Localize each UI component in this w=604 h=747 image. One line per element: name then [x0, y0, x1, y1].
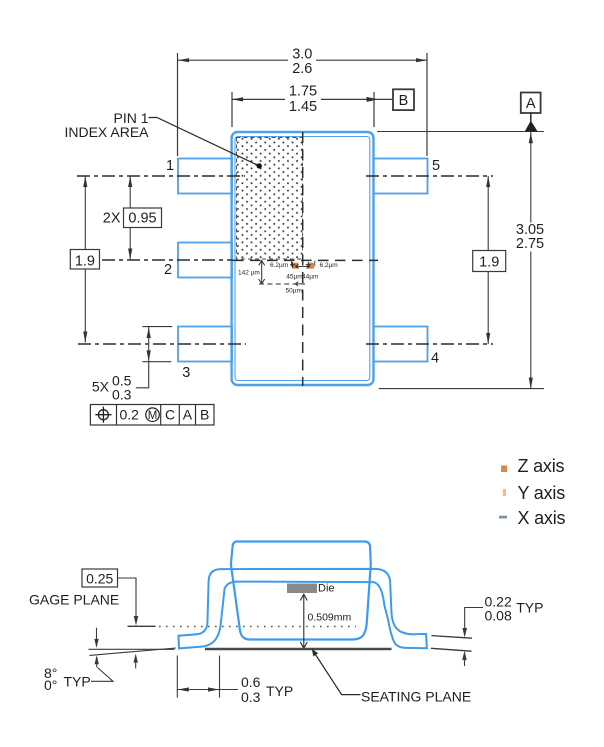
dimension 3.0/2.6 line — [178, 59, 288, 61]
mold body outline — [231, 542, 371, 640]
left 1.9 box — [70, 250, 99, 270]
pin 1 centerline — [77, 175, 245, 177]
svg-text:C: C — [165, 407, 175, 423]
dimension 2X 0.95 line — [129, 176, 131, 260]
die rectangle — [287, 584, 317, 594]
pin 3 — [178, 327, 232, 362]
position symbol — [95, 407, 111, 423]
right 1.9 box — [473, 251, 506, 272]
svg-text:2: 2 — [164, 262, 172, 278]
dimension 3.05/2.75 bottom extension line — [379, 388, 544, 390]
dimension 3.0/2.6 extension line left — [177, 53, 179, 156]
svg-text:1.75: 1.75 — [289, 84, 317, 100]
dimension 3.0/2.6 extension line right — [426, 53, 428, 156]
svg-text:1.9: 1.9 — [479, 254, 499, 270]
right dimension 1.9 line — [487, 176, 489, 344]
svg-text:B: B — [399, 93, 409, 109]
gage plane dotted line — [159, 626, 356, 628]
svg-text:0.25: 0.25 — [86, 570, 113, 586]
svg-text:0.08: 0.08 — [485, 607, 512, 623]
dimension 3.05/2.75 top extension line — [377, 131, 544, 133]
svg-text:142 µm: 142 µm — [238, 270, 260, 277]
svg-text:B: B — [200, 407, 209, 423]
svg-text:A: A — [183, 407, 193, 423]
142um vertical arrow — [261, 260, 263, 284]
seating plane leader — [314, 652, 361, 695]
0.22/0.08 arrows — [465, 608, 483, 629]
svg-text:45µm: 45µm — [286, 273, 302, 280]
svg-text:1.45: 1.45 — [289, 99, 317, 115]
0.509mm dimension — [303, 594, 305, 649]
X axis marker — [499, 516, 507, 519]
pin 4 centerline — [366, 343, 493, 345]
svg-text:6.2µm: 6.2µm — [270, 262, 288, 269]
pin 2 centerline — [77, 259, 233, 261]
pin 2 — [178, 243, 232, 278]
pin 5 centerline — [366, 175, 493, 177]
dimension 1.75/1.45 line — [232, 98, 285, 100]
svg-text:TYP: TYP — [64, 674, 91, 690]
die mark square left — [292, 263, 298, 269]
seating plane line — [205, 648, 392, 650]
svg-text:0.3: 0.3 — [241, 689, 261, 705]
svg-text:1: 1 — [166, 158, 174, 174]
package body inner outline — [235, 137, 370, 381]
svg-text:50µm: 50µm — [286, 287, 302, 294]
gage plane short line — [128, 625, 156, 627]
die mark square right — [308, 263, 314, 269]
pin 1 — [178, 159, 232, 194]
left dimension 1.9 line — [84, 176, 86, 343]
svg-text:0.95: 0.95 — [128, 211, 156, 227]
0.6/0.3 extension lines — [176, 656, 178, 698]
lead angle slant line — [89, 648, 176, 655]
svg-text:Y axis: Y axis — [518, 483, 566, 503]
142um dashed reference line — [259, 283, 305, 285]
pin 3 centerline — [78, 343, 246, 345]
svg-text:0°: 0° — [44, 677, 57, 693]
seating plane left thin line — [88, 648, 174, 650]
svg-text:X axis: X axis — [518, 508, 566, 528]
svg-text:Z axis: Z axis — [518, 456, 565, 476]
svg-text:3: 3 — [182, 365, 190, 381]
svg-text:4: 4 — [431, 350, 439, 366]
TYP leader — [91, 668, 113, 682]
svg-text:44µm: 44µm — [302, 273, 318, 280]
datum A triangle — [525, 121, 538, 132]
datum B box — [393, 89, 414, 110]
svg-text:2.6: 2.6 — [292, 61, 312, 77]
dimension 3.05/2.75 line — [530, 132, 532, 223]
pin 1 index area stipple — [237, 138, 303, 260]
0.22/0.08 extension lines — [432, 636, 473, 639]
pin 4 — [374, 327, 428, 362]
dimension 5X 0.5/0.3 arrow line — [136, 327, 149, 388]
svg-text:5: 5 — [432, 158, 440, 174]
svg-text:0.509mm: 0.509mm — [308, 612, 352, 624]
dimension 5X 0.5/0.3 extension lines — [142, 326, 172, 328]
angle arrows — [96, 628, 98, 646]
pin 1 leader line — [149, 118, 260, 166]
svg-text:5X: 5X — [92, 379, 110, 395]
feature control frame — [90, 405, 214, 426]
dimension 1.75/1.45 extension line right — [373, 92, 375, 127]
svg-text:0.2: 0.2 — [120, 407, 140, 423]
svg-text:6.2µm: 6.2µm — [320, 262, 338, 269]
svg-text:2X: 2X — [103, 211, 121, 227]
lead frame outline with gull-wing leads — [179, 569, 427, 649]
die mark crosses — [290, 262, 295, 268]
pin 5 — [374, 159, 428, 194]
Z axis marker — [501, 466, 507, 473]
package body outer outline — [232, 132, 374, 385]
0.25 box — [82, 569, 118, 587]
svg-text:TYP: TYP — [516, 600, 543, 616]
svg-text:M: M — [148, 410, 158, 422]
svg-text:GAGE PLANE: GAGE PLANE — [29, 591, 119, 607]
0.95 box — [124, 208, 162, 228]
svg-text:INDEX AREA: INDEX AREA — [64, 124, 149, 140]
svg-text:A: A — [526, 96, 536, 112]
horizontal dashed centerline through pin 2 row — [233, 259, 378, 261]
svg-text:Die: Die — [318, 583, 335, 595]
datum A box — [521, 93, 541, 114]
svg-text:0.3: 0.3 — [112, 387, 132, 403]
Y axis marker — [503, 489, 506, 496]
50um arrow — [295, 282, 304, 286]
svg-text:1.9: 1.9 — [75, 254, 95, 270]
0.25 leader — [118, 578, 137, 617]
svg-text:0.6: 0.6 — [241, 674, 261, 690]
45um/44um horizontal arrows — [296, 265, 310, 267]
svg-text:SEATING PLANE: SEATING PLANE — [361, 688, 471, 704]
svg-text:TYP: TYP — [266, 683, 293, 699]
dimension 1.75/1.45 extension line left — [231, 92, 233, 127]
package vertical centerline — [302, 132, 304, 386]
0.6/0.3 dimension line — [177, 689, 238, 691]
svg-text:2.75: 2.75 — [516, 236, 544, 252]
